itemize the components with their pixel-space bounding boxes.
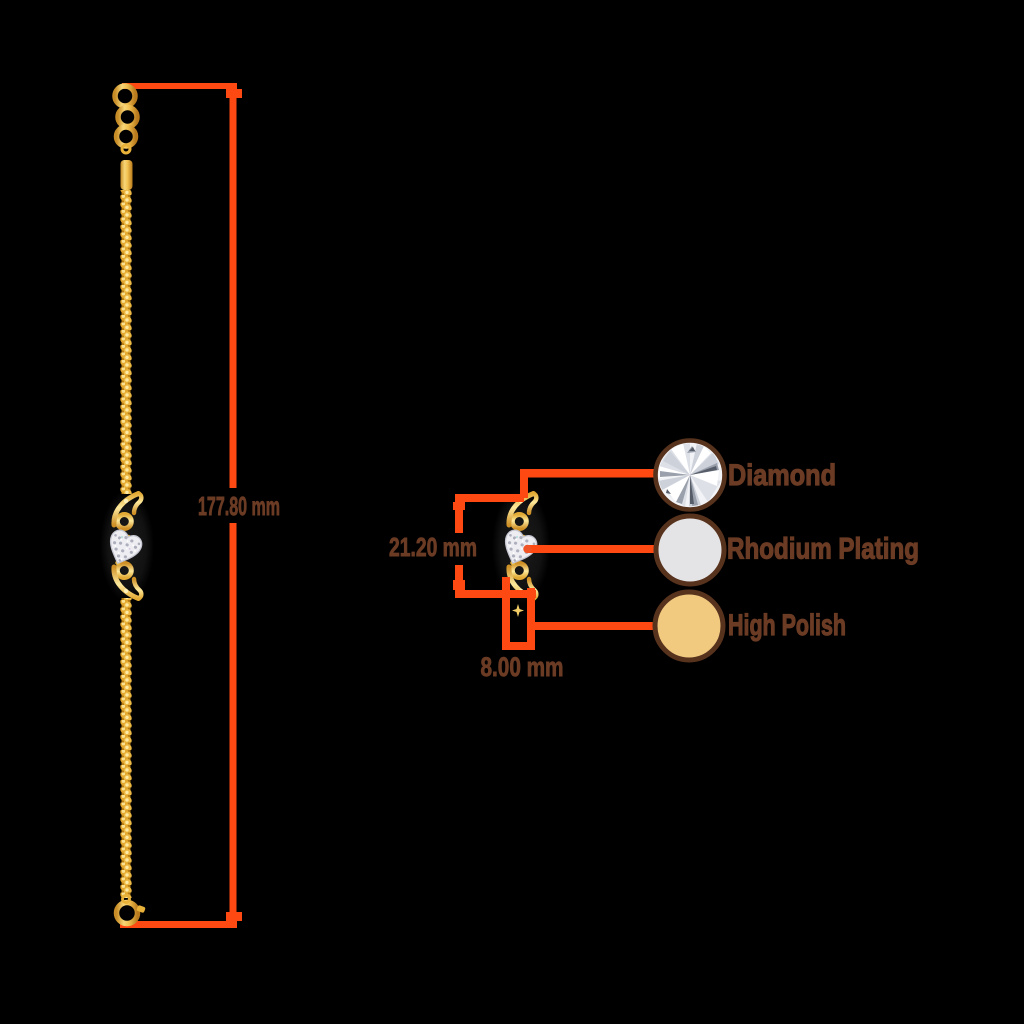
chain clasp: nub (136, 905, 146, 913)
svg-text:21.20 mm: 21.20 mm (389, 532, 477, 562)
leader line to High Polish (529, 622, 656, 630)
leader line to Rhodium Plating (527, 545, 656, 553)
bracket 21.20: vertical lower (455, 565, 463, 598)
svg-text:High Polish: High Polish (728, 609, 846, 642)
width bracket: left vertical (502, 577, 510, 650)
charm pave heart (102, 528, 144, 571)
shadow behind detail charm (492, 488, 550, 604)
svg-text:8.00 mm: 8.00 mm (481, 652, 564, 682)
chain clasp: spring ring (117, 903, 138, 924)
sparkle below detail charm (512, 604, 524, 617)
svg-text:Diamond: Diamond (728, 459, 836, 492)
bracket 21.20: top arm (455, 494, 524, 502)
legend circle: High Polish (655, 592, 723, 660)
chain: bar tag (121, 160, 133, 190)
legend circle: Diamond (656, 441, 725, 510)
chain: small connector link (122, 145, 130, 153)
bracket 21.20: vertical upper (455, 494, 463, 533)
svg-text:Rhodium Plating: Rhodium Plating (727, 533, 919, 566)
shadow behind left charm (100, 490, 154, 602)
dimension bracket main: vertical upper (230, 83, 237, 488)
bracket 21.20: top corner tick (453, 502, 465, 510)
dimension bracket main: vertical lower (230, 523, 237, 928)
chain: lower strand (120, 598, 132, 898)
legend circle: Rhodium Plating (656, 516, 724, 584)
dimension bracket main: bottom tick (226, 912, 242, 921)
chain: top ring 3 (117, 127, 136, 146)
chain: top ring 1 (115, 86, 135, 106)
dimension bracket main: bottom arm (120, 921, 237, 928)
bracket 21.20: bottom arm (455, 590, 536, 598)
leader line to Diamond (520, 469, 656, 478)
width bracket: bottom bar (502, 642, 535, 650)
leader dot at heart (523, 545, 531, 553)
charm top swirl (114, 494, 141, 529)
width bracket: right vertical (527, 588, 535, 650)
bracket 21.20: bottom corner tick (453, 580, 465, 590)
dimension bracket main: top arm (122, 83, 237, 89)
svg-text:177.80 mm: 177.80 mm (198, 491, 280, 521)
detail connector vertical to diamond line (520, 470, 528, 498)
chain clasp: connector (123, 896, 130, 903)
detail charm (497, 494, 539, 599)
left charm (102, 494, 144, 599)
charm bottom swirl (114, 564, 141, 599)
chain: top ring 2 (118, 108, 137, 127)
dimension bracket main: top tick (226, 89, 242, 98)
chain: upper strand (120, 190, 132, 494)
